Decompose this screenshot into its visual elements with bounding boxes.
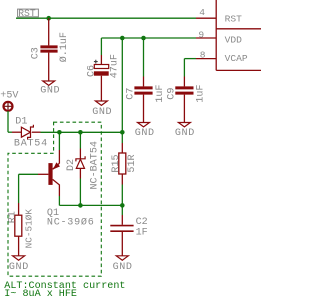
pin 8 VCAP (196, 49, 248, 64)
svg-text:D2: D2 (66, 159, 77, 171)
capacitor C6 (87, 38, 121, 101)
junction node C (120, 130, 125, 135)
svg-text:47uF: 47uF (109, 54, 120, 78)
wire RST net (16, 17, 196, 19)
resistor R1 (8, 174, 35, 256)
power +5V (0, 91, 18, 133)
capacitor C2 (110, 205, 147, 255)
junction dot VDD/C7 (141, 36, 146, 41)
pin 4 RST (196, 7, 242, 24)
junction node D (78, 203, 83, 208)
ALT group dashed outline (8, 122, 101, 276)
svg-text:C6: C6 (87, 65, 98, 77)
capacitor C3 (31, 18, 71, 81)
wire D1 cathode net (41, 131, 123, 133)
svg-text:C3: C3 (31, 47, 42, 59)
svg-text:R1: R1 (8, 211, 19, 223)
svg-text:GND: GND (175, 128, 195, 139)
svg-text:GND: GND (40, 86, 60, 97)
svg-text:NC-BAT54: NC-BAT54 (90, 141, 101, 189)
svg-text:+5V: +5V (0, 91, 18, 102)
svg-text:1uF: 1uF (196, 85, 207, 103)
svg-text:GND: GND (9, 262, 29, 273)
junction node E (120, 203, 125, 208)
svg-text:GND: GND (135, 128, 155, 139)
wire VDD branch down (121, 38, 123, 132)
pin 9 VDD (196, 29, 242, 45)
svg-text:GND: GND (92, 107, 112, 118)
wire VDD net (101, 37, 196, 39)
svg-text:VDD: VDD (225, 34, 243, 45)
diode D1 (8, 116, 48, 149)
junction dot on RST net (46, 16, 51, 21)
svg-text:D1: D1 (15, 116, 27, 127)
junction node B (78, 130, 83, 135)
wire emitter branch (58, 132, 60, 150)
svg-text:VCAP: VCAP (225, 53, 248, 64)
svg-text:NC-51ØK: NC-51ØK (24, 209, 35, 249)
ground GND under C6 (92, 101, 112, 118)
svg-text:1F: 1F (136, 228, 148, 239)
op-amp U1 (microcontroller box) (216, 0, 261, 70)
svg-text:I~ 8uA x HFE: I~ 8uA x HFE (4, 289, 77, 299)
svg-text:9: 9 (198, 29, 204, 40)
svg-text:R15: R15 (111, 154, 122, 172)
svg-text:C7: C7 (126, 88, 137, 100)
svg-text:1uF: 1uF (155, 85, 166, 103)
wire VCAP net (184, 58, 196, 60)
capacitor C9 (167, 59, 207, 123)
svg-text:RST: RST (18, 8, 36, 19)
svg-text:8: 8 (200, 49, 206, 60)
diode D2 (66, 132, 101, 205)
svg-text:4: 4 (199, 7, 205, 18)
svg-text:C9: C9 (167, 88, 178, 100)
ground GND under C7 (135, 123, 155, 140)
svg-text:RST: RST (225, 13, 243, 24)
svg-text:NC-39Ø6: NC-39Ø6 (47, 217, 95, 229)
ground GND under C9 (175, 123, 195, 140)
junction node A (57, 130, 62, 135)
ground GND under C3 (40, 81, 60, 97)
svg-text:GND: GND (113, 262, 133, 273)
svg-text:Ø.1uF: Ø.1uF (58, 32, 70, 62)
ground GND under C2 (113, 256, 133, 273)
wire collector net (59, 204, 122, 206)
transistor Q1 (19, 162, 95, 228)
node RST label box (18, 8, 39, 19)
ground GND under R1 (9, 256, 29, 273)
junction dot VDD/branch (120, 36, 125, 41)
svg-text:51R: 51R (127, 154, 138, 172)
resistor R15 (111, 132, 138, 205)
svg-text:C2: C2 (136, 217, 148, 228)
svg-text:BAT54: BAT54 (14, 138, 48, 149)
capacitor C7 (126, 38, 166, 123)
